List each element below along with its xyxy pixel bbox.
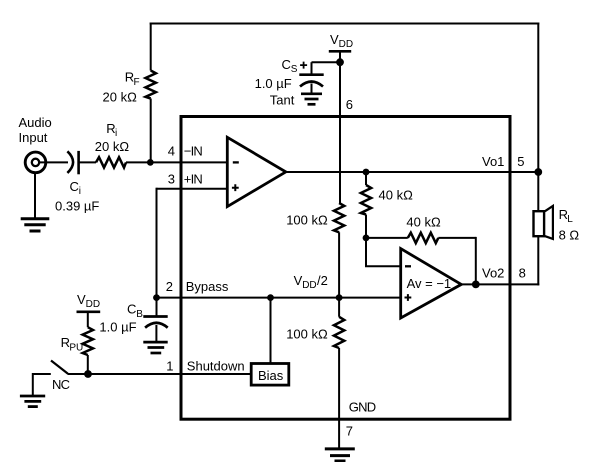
svg-text:40 kΩ: 40 kΩ	[379, 187, 414, 202]
svg-text:40 kΩ: 40 kΩ	[406, 215, 441, 230]
label RL	[559, 207, 574, 225]
wire 40k-1 bottom stub to node	[365, 215, 367, 238]
speaker RL	[534, 206, 553, 239]
svg-text:7: 7	[346, 424, 353, 439]
wire speaker top stub	[537, 171, 539, 211]
node right rail Vo1	[534, 168, 542, 176]
capacitor CS plates	[299, 75, 323, 87]
svg-text:Bypass: Bypass	[186, 279, 229, 294]
op-amp U1 minus sign	[233, 161, 239, 163]
node shutdown/RPU	[84, 370, 92, 378]
svg-text:1.0 µF: 1.0 µF	[99, 319, 136, 334]
wire RF bottom stub to input node	[150, 99, 152, 164]
label CB	[127, 302, 143, 320]
svg-text:20 kΩ: 20 kΩ	[95, 139, 130, 154]
svg-text:i: i	[79, 186, 81, 197]
wire VDD rail down to pin 6 and divider	[339, 62, 341, 203]
ground GND pin 7	[325, 449, 355, 461]
VDD symbol left	[77, 292, 101, 312]
svg-text:20 kΩ: 20 kΩ	[103, 89, 138, 104]
switch NC lever	[51, 361, 68, 374]
svg-text:NC: NC	[52, 377, 70, 392]
op-amp U2 minus sign	[405, 265, 411, 267]
ground CB	[143, 342, 167, 353]
wire 40k-1 top stub	[365, 172, 367, 185]
svg-text:100 kΩ: 100 kΩ	[286, 327, 328, 342]
wire +IN pin 3	[157, 188, 228, 190]
svg-text:S: S	[291, 64, 298, 75]
svg-text:B: B	[136, 309, 143, 320]
svg-text:0.39 µF: 0.39 µF	[55, 199, 99, 214]
wire 40k-2 to feedback corner	[438, 237, 476, 239]
capacitor CS stub	[311, 62, 313, 74]
svg-text:−IN: −IN	[184, 144, 203, 159]
IC package box	[181, 117, 510, 420]
svg-text:Vo1: Vo1	[482, 154, 504, 169]
svg-text:DD: DD	[339, 39, 353, 50]
resistor RPU	[83, 327, 93, 355]
resistor 100k lower (divider)	[334, 317, 344, 348]
svg-text:PU: PU	[69, 342, 83, 353]
svg-text:Audio: Audio	[19, 115, 52, 130]
VDD symbol top	[329, 32, 353, 52]
wire right rail down to Vo1 node	[537, 23, 539, 173]
svg-text:1: 1	[166, 359, 173, 374]
svg-text:i: i	[115, 128, 117, 139]
capacitor Ci	[67, 151, 78, 174]
ground CS	[301, 94, 322, 105]
svg-text:DD: DD	[302, 280, 316, 291]
svg-text:L: L	[567, 214, 573, 225]
svg-text:/2: /2	[317, 273, 328, 288]
wire 100k lower to GND pin 7	[338, 348, 340, 449]
label Audio Input	[19, 115, 52, 145]
wire 100k upper to VDD/2 node	[338, 232, 340, 297]
svg-text:6: 6	[346, 97, 353, 112]
svg-text:Bias: Bias	[258, 368, 284, 383]
wire node to 40k-2	[366, 237, 408, 239]
svg-text:1.0 µF: 1.0 µF	[255, 76, 292, 91]
label Ri	[106, 121, 117, 139]
op-amp U2 plus sign	[405, 294, 412, 301]
op-amp U1	[227, 137, 285, 206]
ground audio input	[21, 219, 50, 231]
resistor RF	[146, 71, 156, 99]
svg-text:Av = −1: Av = −1	[407, 276, 452, 291]
wire Vo1 from op-amp to right rail	[286, 171, 539, 173]
label Ci	[70, 179, 82, 197]
svg-text:Input: Input	[19, 130, 48, 145]
capacitor CS plus sign	[300, 62, 307, 69]
wire CS to ground	[311, 84, 313, 94]
label RPU	[61, 335, 84, 353]
resistor 100k upper (divider)	[334, 203, 344, 232]
svg-text:3: 3	[168, 171, 175, 186]
resistor 40k internal vertical	[361, 185, 371, 215]
wire U2 output Vo2 row	[461, 283, 539, 285]
switch contact wire	[33, 373, 51, 375]
label VDD/2 net	[294, 273, 328, 291]
wire top feedback rail	[150, 23, 540, 25]
wire VDD left stub	[87, 312, 89, 327]
wire RF top stub	[150, 23, 152, 71]
node Vo2 output	[472, 281, 480, 289]
wire switch contact down	[32, 373, 34, 396]
Bias block	[251, 364, 289, 386]
wire Bias box to VDD/2 row	[270, 298, 272, 364]
svg-text:Tant: Tant	[270, 92, 295, 107]
node bypass CB	[153, 294, 160, 301]
node bias tap	[267, 294, 274, 301]
node 40k junction	[363, 235, 370, 242]
wire to U2 inverting input	[366, 237, 401, 266]
capacitor CB plates	[143, 317, 167, 328]
wire VDD/2 node to 100k lower	[338, 298, 340, 317]
wire Ci to Ri	[79, 161, 96, 163]
op-amp U2	[401, 249, 462, 318]
wire +IN down to bypass node	[156, 188, 158, 298]
svg-text:Shutdown: Shutdown	[187, 359, 245, 374]
svg-text:100 kΩ: 100 kΩ	[286, 213, 328, 228]
svg-text:5: 5	[517, 154, 524, 169]
node VDD/CS	[336, 58, 344, 66]
node input junction	[147, 159, 154, 166]
ground NC	[20, 396, 45, 407]
wire VDD top stub	[339, 51, 341, 63]
svg-text:+IN: +IN	[184, 171, 203, 186]
svg-text:8 Ω: 8 Ω	[559, 227, 580, 242]
node VDD/2 divider	[336, 294, 343, 301]
svg-text:F: F	[134, 77, 140, 88]
svg-text:C: C	[127, 302, 136, 317]
node Vo1/40k	[363, 169, 370, 176]
op-amp U1 plus sign	[232, 184, 239, 191]
svg-text:C: C	[282, 57, 291, 72]
wire VDD node to CS	[312, 61, 342, 63]
svg-text:DD: DD	[86, 299, 100, 310]
svg-text:C: C	[70, 179, 79, 194]
svg-text:Vo2: Vo2	[482, 266, 504, 281]
label CS	[282, 57, 298, 75]
capacitor CB stub	[156, 298, 158, 317]
wire speaker bottom stub	[537, 236, 539, 285]
wire VDD/2 bypass row	[157, 297, 401, 299]
resistor 40k feedback horizontal	[408, 233, 439, 243]
svg-text:4: 4	[168, 144, 175, 159]
wire connector to Ci	[40, 161, 69, 163]
label RF	[125, 70, 140, 88]
wire audio input ground stub	[34, 172, 36, 219]
svg-text:GND: GND	[349, 400, 376, 415]
svg-text:2: 2	[166, 279, 173, 294]
svg-text:8: 8	[519, 266, 526, 281]
resistor Ri	[96, 157, 126, 167]
wire Ri to -IN pin 4	[126, 161, 227, 163]
wire CB to ground	[155, 325, 157, 342]
wire feedback down to Vo2 node	[475, 237, 477, 285]
wire RPU to shutdown node	[87, 355, 89, 374]
wire shutdown row to Bias	[68, 373, 252, 375]
audio input connector	[25, 152, 46, 173]
